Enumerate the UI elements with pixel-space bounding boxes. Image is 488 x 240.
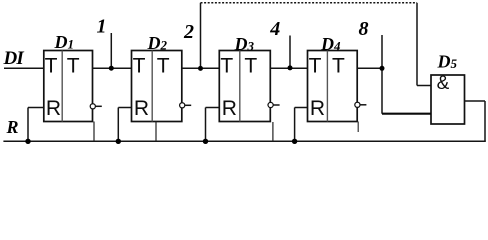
wire stub below D2 divider: [155, 122, 157, 142]
svg-text:DI: DI: [3, 48, 25, 69]
svg-text:R: R: [46, 97, 61, 120]
svg-text:R: R: [134, 97, 149, 120]
wire top feedback drop to D5 upper input: [417, 3, 431, 86]
svg-text:R: R: [6, 117, 19, 137]
node 1 stub: [110, 33, 112, 68]
inverted output circle Q3bar: [268, 102, 280, 107]
svg-text:T: T: [133, 55, 146, 78]
wire Q3 to T4: [270, 67, 307, 69]
wire DI input: [4, 67, 44, 69]
node 8 junction dot: [380, 66, 385, 71]
svg-text:T: T: [67, 55, 80, 78]
wire R branch to D3: [206, 108, 220, 142]
svg-text:R: R: [310, 97, 325, 120]
svg-text:2: 2: [183, 21, 194, 43]
flip-flop D1 box: [44, 51, 93, 122]
wire stub below D1: [93, 122, 95, 142]
node 4 junction dot: [288, 65, 293, 70]
node 4 stub: [289, 36, 291, 69]
junction dot R-D4: [292, 139, 297, 144]
AND gate D5 box: [431, 73, 465, 124]
svg-text:T: T: [45, 55, 58, 78]
top feedback wire (node 2 to gate D5): [201, 2, 418, 4]
node 2 riser to top feedback wire: [200, 3, 202, 69]
svg-text:T: T: [220, 55, 233, 78]
inverted output circle Q4bar: [355, 102, 367, 107]
svg-text:T: T: [244, 55, 257, 78]
node 1 junction dot: [109, 66, 114, 71]
svg-text:T: T: [309, 55, 322, 78]
inverted output circle Q1bar: [90, 104, 102, 109]
wire D5 lower input (from node 8): [382, 113, 431, 115]
flip-flop D2 box: [132, 51, 182, 122]
svg-text:T: T: [332, 55, 345, 78]
wire stub below D4: [357, 122, 359, 133]
node 2 junction dot: [198, 66, 203, 71]
svg-text:T: T: [157, 55, 170, 78]
node 8 riser / drop to gate D5 input: [381, 35, 383, 114]
svg-text:1: 1: [97, 16, 107, 38]
svg-text:D1: D1: [54, 32, 75, 52]
svg-text:&: &: [437, 73, 450, 94]
reset bus wire: [3, 140, 485, 142]
wire Q4 to node 8: [357, 67, 382, 69]
svg-text:R: R: [222, 97, 237, 120]
wire R branch to D4: [295, 108, 308, 142]
flip-flop D3 box: [219, 51, 270, 122]
svg-text:D3: D3: [234, 34, 255, 54]
junction dot R-D2: [116, 139, 121, 144]
wire R branch to D2: [118, 108, 131, 142]
wire D5 output to reset bus: [465, 101, 486, 141]
inverted output circle Q2bar: [180, 103, 192, 108]
junction dot R-D3: [203, 139, 208, 144]
wire stub below D3: [272, 122, 274, 141]
svg-text:D4: D4: [320, 34, 341, 54]
svg-text:4: 4: [269, 18, 280, 40]
wire Q1 to T2: [93, 67, 132, 69]
junction dot R-D1: [25, 139, 30, 144]
flip-flop D4 box: [308, 51, 358, 122]
svg-text:D2: D2: [147, 33, 168, 53]
svg-text:D5: D5: [437, 52, 458, 72]
wire Q2 to T3: [182, 67, 220, 69]
wire R branch to D1: [28, 108, 44, 142]
svg-text:8: 8: [359, 18, 369, 40]
